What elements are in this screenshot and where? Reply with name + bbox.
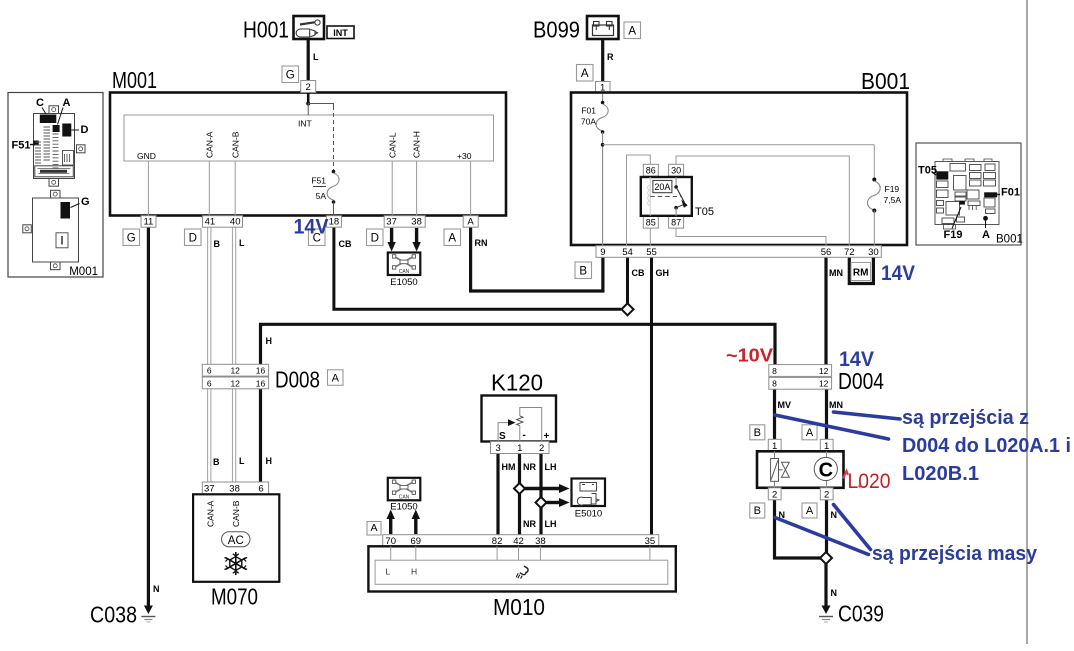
K120 pin strip (491, 442, 550, 455)
svg-text:C038: C038 (90, 602, 137, 628)
connector code B box L020 top (750, 425, 765, 440)
pin 18 of M001 (326, 216, 341, 228)
connector code D below pins 37 38 (367, 229, 384, 246)
svg-text:F51: F51 (311, 176, 326, 186)
svg-text:G: G (81, 196, 90, 208)
svg-text:MN: MN (829, 268, 843, 278)
svg-text:A: A (332, 372, 340, 384)
svg-text:C: C (819, 460, 833, 482)
svg-text:6: 6 (207, 366, 212, 376)
svg-text:D008: D008 (275, 367, 320, 393)
wire CB from M001 pin 18 to junction (334, 226, 621, 309)
wire N from L020 A2 to mass junction (825, 499, 828, 553)
svg-text:~10V: ~10V (726, 346, 773, 366)
svg-text:F19: F19 (885, 184, 900, 194)
svg-text:L: L (386, 567, 391, 577)
connector D008 row 2 (202, 377, 268, 389)
svg-text:7,5A: 7,5A (884, 195, 902, 205)
svg-text:87: 87 (671, 218, 681, 228)
svg-text:5A: 5A (316, 191, 327, 201)
svg-text:12: 12 (819, 366, 829, 376)
wire GH from B001 pin 55 to M010 pin 35 (650, 256, 653, 536)
svg-text:L020B.1: L020B.1 (902, 463, 979, 485)
svg-text:+30: +30 (457, 151, 472, 161)
wire to fuse F51 dashed (308, 104, 333, 111)
L020 pin A2 (820, 488, 833, 501)
relay T05 pin 85 (643, 216, 658, 228)
wire N junction to C039 ground (824, 563, 827, 608)
ground C039 symbol (819, 606, 833, 623)
wire CAN-B pair D008 to M070 pin 38 (232, 389, 234, 483)
annotation blue line to MV (775, 415, 889, 439)
svg-text:M001: M001 (112, 67, 157, 93)
svg-text:B: B (579, 266, 587, 278)
M001 internal pin leads (147, 161, 149, 216)
svg-text:M070: M070 (211, 584, 258, 610)
svg-text:D: D (371, 233, 379, 245)
device B099 icon (battery) (587, 16, 619, 39)
wire CAN-B pair M001 40 to D008 (232, 226, 234, 365)
relay T05 pin 87 (669, 216, 684, 228)
svg-text:12: 12 (230, 366, 240, 376)
svg-text:LH: LH (545, 519, 557, 529)
svg-text:są przejścia masy: są przejścia masy (872, 543, 1038, 565)
svg-text:CB: CB (339, 239, 352, 249)
connector code A box above B001 (577, 65, 594, 82)
wire RM jumper B001 72 to 30 (849, 256, 873, 284)
device H001 icon (ignition key) (294, 16, 325, 39)
svg-text:H: H (411, 567, 417, 577)
svg-text:86: 86 (646, 166, 656, 176)
svg-text:38: 38 (229, 484, 240, 495)
svg-text:MN: MN (829, 400, 843, 410)
relay T05 pin 86 (643, 164, 658, 176)
svg-text:CAN-H: CAN-H (412, 131, 422, 158)
svg-text:F19: F19 (944, 229, 963, 241)
fuse F19 7,5A (873, 145, 875, 179)
pins 41 40 of M001 (203, 216, 243, 228)
ECU M001 box (110, 93, 506, 216)
svg-text:N: N (831, 510, 838, 520)
M010 pin strip (383, 535, 659, 547)
page edge line (1026, 0, 1028, 644)
svg-text:NR: NR (523, 462, 536, 472)
sensor K120 box (482, 396, 557, 443)
svg-text:N: N (831, 588, 838, 598)
svg-text:20A: 20A (654, 182, 670, 192)
L020 pin B2 (768, 488, 781, 501)
svg-text:INT: INT (298, 119, 312, 129)
svg-text:L020: L020 (848, 470, 891, 493)
svg-text:H: H (266, 336, 273, 346)
svg-text:CAN-B: CAN-B (231, 131, 241, 158)
svg-text:D004: D004 (838, 368, 884, 394)
wire CAN-A pair D008 to M070 pin 37 (207, 389, 209, 483)
wire N GND from M001 pin 11 to C038 (147, 226, 150, 606)
connector code D below pins 41 40 (185, 229, 202, 246)
svg-text:E1050: E1050 (390, 277, 417, 288)
wire arrow CAN-H to E1050 (415, 228, 418, 243)
svg-text:M010: M010 (493, 594, 545, 620)
svg-text:CAN-B: CAN-B (231, 500, 241, 527)
wire H from M070 pin 6 via D008 to D004 pin 8 (261, 324, 776, 483)
relay T05 pin 30 (669, 164, 684, 176)
svg-text:B: B (754, 505, 761, 517)
svg-text:14V: 14V (839, 348, 874, 371)
pin 1 of B001 (596, 82, 611, 94)
svg-text:S: S (499, 431, 506, 442)
M070 snowflake icon (225, 552, 248, 575)
svg-text:K120: K120 (491, 370, 543, 396)
connector code A below pin A (444, 229, 461, 246)
label INT box (327, 26, 354, 39)
wire RN from M001 pin A to B001 pin 9 (471, 226, 603, 291)
M010 inner box (375, 560, 668, 584)
junction diamond NR (514, 483, 525, 494)
inset B001 fusebox box (916, 143, 1021, 245)
svg-text:L: L (313, 52, 319, 62)
svg-text:B: B (213, 457, 220, 467)
svg-text:B099: B099 (533, 17, 580, 43)
svg-text:F51: F51 (12, 140, 31, 152)
connector code A box D008 (328, 370, 344, 386)
svg-text:AC: AC (228, 535, 244, 547)
junction diamond mass (820, 552, 832, 564)
svg-text:C039: C039 (838, 601, 884, 627)
svg-text:-: - (523, 430, 526, 441)
connector code G box (282, 66, 299, 83)
connector D008 row 1 (202, 364, 268, 376)
svg-text:16: 16 (256, 378, 266, 388)
connector D004 row 1 (769, 365, 832, 377)
label L020 red (843, 471, 848, 479)
inset bottom connector drawing (23, 190, 79, 269)
wire arrow LH to E5010 (547, 501, 561, 504)
connector code G below pin 11 (123, 229, 140, 246)
svg-text:G: G (127, 233, 136, 245)
svg-text:NR: NR (523, 519, 536, 529)
connector code A box L020 bottom (802, 503, 817, 518)
label RM box (851, 263, 871, 281)
annotation blue line mass left (775, 518, 869, 555)
svg-text:40: 40 (230, 217, 241, 228)
svg-text:D004 do L020A.1 i: D004 do L020A.1 i (902, 435, 1071, 457)
svg-text:2: 2 (772, 489, 777, 500)
svg-text:A: A (806, 427, 814, 439)
svg-text:C: C (36, 97, 44, 109)
connector code A box M010 (367, 522, 381, 536)
junction diamond CB (622, 303, 634, 315)
wire L from H001 to M001 pin 2 (307, 38, 310, 81)
svg-text:8: 8 (772, 366, 777, 376)
svg-text:18: 18 (329, 217, 340, 228)
svg-text:R: R (607, 52, 614, 62)
svg-text:A: A (806, 505, 814, 517)
CAN node E1050 lower icon (388, 478, 421, 501)
svg-text:2: 2 (306, 82, 311, 93)
svg-text:G: G (286, 70, 295, 82)
svg-text:30: 30 (868, 247, 879, 258)
connector code A box L020 top (802, 425, 817, 440)
svg-text:37: 37 (204, 484, 215, 495)
svg-text:41: 41 (205, 217, 216, 228)
svg-text:CAN-A: CAN-A (205, 131, 215, 158)
svg-text:CB: CB (632, 268, 645, 278)
wire relay 30 to pin 72 (676, 156, 849, 246)
wire HM K120 pin 3 to M010 pin 82 (496, 452, 499, 536)
relay T05 (641, 177, 692, 216)
annotation blue line mass right (834, 505, 871, 550)
svg-text:T05: T05 (695, 206, 714, 218)
svg-text:CAN: CAN (399, 269, 410, 275)
svg-text:38: 38 (411, 217, 422, 228)
svg-text:12: 12 (230, 378, 240, 388)
svg-text:37: 37 (386, 217, 397, 228)
svg-text:A: A (370, 522, 377, 534)
svg-text:A: A (448, 233, 456, 245)
wire relay 85 to pin 55 (649, 228, 651, 247)
svg-text:M001: M001 (69, 266, 98, 278)
svg-text:B001: B001 (861, 68, 910, 94)
svg-text:A: A (63, 97, 71, 109)
wire B001 54 to relay 86 (627, 155, 651, 246)
fuse F51 5A (332, 170, 336, 174)
svg-text:GH: GH (656, 268, 670, 278)
svg-text:CAN: CAN (399, 494, 410, 500)
device E5010 icon (572, 479, 606, 507)
svg-text:GND: GND (137, 151, 156, 161)
pin 2 of M001 (301, 81, 316, 94)
svg-text:16: 16 (256, 366, 266, 376)
svg-text:70A: 70A (581, 117, 596, 127)
svg-text:A: A (581, 68, 589, 80)
wire MN from B001 pin 56 to D004 (824, 256, 827, 365)
junction box B001 (571, 93, 907, 246)
svg-text:+: + (544, 431, 550, 442)
svg-text:56: 56 (821, 247, 832, 258)
inset label A dot (983, 216, 988, 221)
svg-text:N: N (153, 584, 160, 594)
L020 pin A1 (820, 439, 833, 452)
inset fusebox drawing (935, 159, 999, 229)
svg-text:E1050: E1050 (390, 502, 417, 513)
wire relay 87 to pin 56 (676, 228, 826, 247)
M070 pin strip (202, 482, 268, 495)
svg-text:są przejścia z: są przejścia z (902, 407, 1029, 429)
connector code C below pin 18 (309, 229, 326, 246)
svg-text:72: 72 (844, 247, 855, 258)
svg-text:14V: 14V (881, 262, 915, 285)
svg-text:6: 6 (258, 484, 263, 495)
ECU M010 box (368, 546, 675, 591)
svg-text:MV: MV (778, 400, 792, 410)
M070 AC oval (222, 532, 251, 547)
CAN node E1050 upper icon (388, 253, 421, 276)
wire CB from B001 pin 54 to junction (626, 256, 629, 304)
junction diamond LH (536, 497, 547, 508)
svg-text:HM: HM (502, 462, 516, 472)
svg-text:3: 3 (495, 443, 500, 454)
annotation blue line to MN (834, 412, 901, 419)
node F01 junction (601, 143, 605, 147)
svg-text:CAN-L: CAN-L (388, 132, 398, 158)
svg-text:T05: T05 (918, 165, 937, 177)
M010 pin leads (390, 546, 392, 560)
control panel M070 box (193, 494, 279, 582)
svg-text:B: B (214, 239, 221, 249)
svg-text:LH: LH (545, 462, 557, 472)
connector D004 row 2 (769, 377, 832, 389)
node INT junction (307, 93, 310, 104)
svg-text:6: 6 (207, 378, 212, 388)
wire MV from D004 to L020 B1 (773, 389, 776, 440)
svg-text:L: L (239, 456, 245, 466)
svg-text:12: 12 (819, 379, 829, 389)
svg-text:2: 2 (539, 443, 544, 454)
inset M001 connector views box (8, 93, 103, 278)
wire LH K120 pin 2 to M010 pin 38 (539, 452, 542, 536)
connector code B box below B001 (575, 262, 592, 279)
M001 inner box (124, 115, 494, 161)
pin A of M001 (463, 216, 478, 228)
svg-text:E5010: E5010 (575, 509, 602, 520)
wire MN from D004 to L020 A1 (825, 389, 828, 440)
svg-text:14V: 14V (294, 216, 329, 239)
pins 37 38 of M001 (384, 216, 425, 228)
svg-text:F01: F01 (581, 106, 596, 116)
connector code B box L020 bottom (750, 503, 765, 518)
svg-text:8: 8 (772, 379, 777, 389)
svg-text:RN: RN (475, 238, 488, 248)
compressor L020 box (757, 451, 844, 488)
inset top connector drawing (34, 106, 86, 186)
wire R from B099 to B001 pin 1 (601, 38, 604, 82)
wire CAN-A pair M001 41 to D008 (207, 226, 209, 365)
svg-text:11: 11 (143, 217, 153, 228)
svg-text:2: 2 (824, 489, 829, 500)
svg-text:H: H (266, 456, 273, 466)
wire arrow CAN-L to E1050 (390, 228, 393, 243)
wire NR K120 pin 1 to M010 pin 42 (518, 452, 521, 536)
svg-text:B: B (754, 427, 761, 439)
M010 heater icon (516, 566, 528, 579)
wire N from L020 B2 to mass junction (775, 499, 821, 558)
svg-text:A: A (628, 26, 636, 38)
L020 pin B1 (768, 439, 781, 452)
svg-text:D: D (81, 124, 89, 136)
ground C038 symbol (141, 606, 155, 623)
svg-text:A: A (467, 217, 474, 228)
svg-text:1: 1 (517, 443, 522, 454)
svg-text:F01: F01 (1001, 187, 1020, 199)
wire arrow M010 70 up to E1050 (389, 517, 392, 534)
svg-text:30: 30 (671, 166, 681, 176)
wire arrow M010 69 up to E1050 (414, 517, 417, 534)
B001 bottom pin strip (596, 246, 881, 258)
svg-text:L: L (239, 238, 245, 248)
svg-text:D: D (189, 233, 197, 245)
connector code A box B099 (624, 22, 641, 39)
svg-text:CAN-A: CAN-A (206, 500, 216, 527)
wire arrow NR to E5010 (525, 487, 560, 490)
svg-text:9: 9 (600, 247, 605, 258)
svg-text:INT: INT (333, 28, 348, 38)
svg-text:B001: B001 (996, 234, 1023, 246)
pin 11 of M001 GND (141, 216, 156, 228)
svg-text:55: 55 (646, 247, 657, 258)
fuse F01 70A (602, 94, 604, 102)
svg-text:RM: RM (853, 268, 869, 279)
svg-text:85: 85 (646, 218, 656, 228)
svg-text:H001: H001 (243, 17, 289, 43)
svg-text:A: A (982, 229, 990, 241)
svg-text:54: 54 (622, 247, 633, 258)
